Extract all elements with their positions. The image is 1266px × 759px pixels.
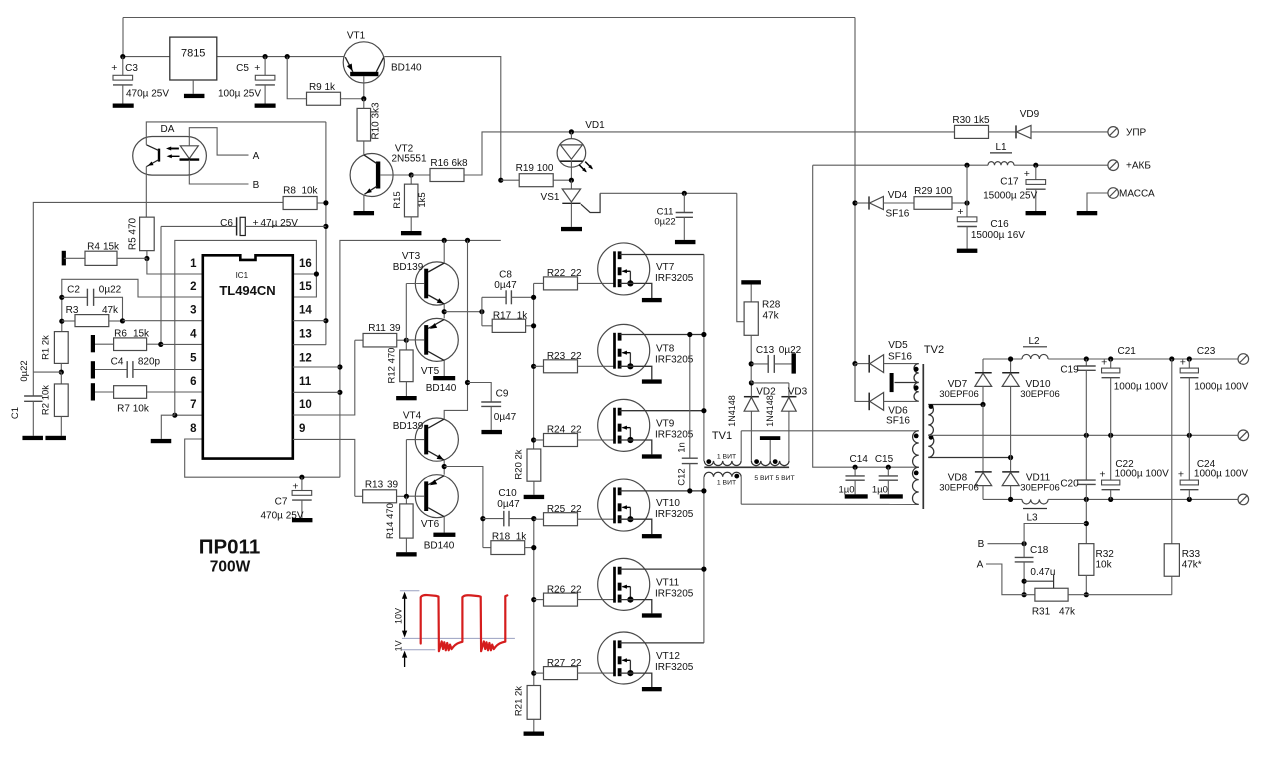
ground VT9 source	[642, 454, 662, 458]
transformer TV1	[704, 430, 789, 468]
wire 7815 input/output row	[120, 54, 344, 59]
svg-text:R18: R18	[492, 531, 511, 542]
svg-text:15k: 15k	[133, 328, 150, 339]
capacitor C11	[654, 193, 693, 240]
transistor VT3	[393, 251, 459, 340]
resistor R6	[95, 328, 163, 350]
svg-text:VT8: VT8	[656, 343, 675, 354]
svg-text:C17: C17	[1000, 177, 1019, 188]
svg-text:12: 12	[299, 353, 312, 365]
wire TV1 bottom rail to TV2	[741, 503, 919, 505]
svg-text:30EPF06: 30EPF06	[1020, 389, 1060, 400]
resistor R1	[33, 332, 68, 375]
svg-text:VT5: VT5	[421, 366, 440, 377]
capacitor C18	[1015, 544, 1056, 598]
svg-text:R5 470: R5 470	[127, 217, 138, 250]
resistor R29	[914, 186, 970, 209]
TV1 feedback winding 5 VIT 5 VIT	[751, 440, 794, 482]
svg-text:BD139: BD139	[393, 421, 424, 432]
svg-text:1000µ 100V: 1000µ 100V	[1115, 469, 1169, 480]
svg-text:+: +	[254, 62, 260, 74]
ground VT11 source	[642, 613, 662, 617]
capacitor C16	[957, 165, 1025, 248]
svg-text:30EPF06: 30EPF06	[939, 389, 979, 400]
svg-text:IRF3205: IRF3205	[655, 354, 694, 365]
svg-text:0µ47: 0µ47	[494, 412, 517, 423]
svg-text:30EPF06: 30EPF06	[939, 483, 979, 494]
resistor R27	[534, 658, 615, 680]
svg-text:+: +	[1178, 469, 1184, 481]
svg-text:BD140: BD140	[424, 540, 455, 551]
ground R20	[524, 495, 545, 499]
svg-text:1N4148: 1N4148	[727, 395, 737, 427]
ground VS1	[561, 227, 582, 231]
svg-text:+: +	[1101, 357, 1107, 369]
resistor R4	[64, 242, 147, 266]
diode VD7	[939, 359, 992, 407]
svg-text:R26: R26	[547, 584, 566, 595]
capacitor C3	[111, 57, 169, 104]
svg-text:IC1: IC1	[236, 271, 249, 280]
chassis bar C4	[91, 361, 95, 378]
wire R32 R33 bottom link	[1086, 594, 1172, 596]
svg-text:R30 1k5: R30 1k5	[952, 115, 990, 126]
svg-text:5: 5	[190, 353, 197, 365]
diode VD8	[939, 405, 992, 500]
node B output	[978, 539, 1027, 550]
svg-text:+: +	[1099, 469, 1105, 481]
ground R21	[524, 732, 545, 736]
svg-text:VD5: VD5	[888, 340, 908, 351]
capacitor C12	[677, 332, 698, 494]
svg-text:VT7: VT7	[656, 262, 675, 273]
optocoupler DA	[133, 124, 207, 175]
svg-text:+: +	[1024, 168, 1030, 180]
svg-text:47k: 47k	[1059, 607, 1076, 618]
svg-text:C6: C6	[220, 218, 233, 229]
capacitor C14	[838, 454, 868, 495]
svg-text:R8: R8	[283, 186, 296, 197]
MOSFET VT8	[598, 324, 704, 379]
MOSFET VT12	[598, 632, 704, 687]
diode VD11	[1002, 458, 1060, 500]
resistor R26	[534, 584, 615, 606]
svg-text:0.47u: 0.47u	[1030, 567, 1055, 578]
ground VT6	[433, 533, 455, 537]
ground pin7	[151, 439, 172, 443]
svg-text:1 ВИТ: 1 ВИТ	[717, 453, 736, 460]
svg-text:R15: R15	[392, 191, 403, 208]
chassis bar R28 top	[741, 280, 761, 284]
svg-text:C12: C12	[677, 468, 688, 485]
capacitor C22	[1099, 435, 1169, 499]
svg-text:1 ВИТ: 1 ВИТ	[717, 479, 736, 486]
resistor R21	[514, 686, 541, 732]
ground VT12 source	[642, 687, 662, 691]
svg-text:VT3: VT3	[402, 251, 421, 262]
svg-text:15: 15	[299, 281, 312, 293]
svg-text:VD4: VD4	[888, 190, 908, 201]
resistor R32	[1079, 499, 1115, 597]
svg-text:10k: 10k	[301, 186, 318, 197]
svg-text:R4: R4	[87, 242, 100, 253]
svg-text:BD140: BD140	[391, 63, 422, 74]
ground VT8 source	[642, 379, 662, 383]
oscillogram 10V dimension arrow	[394, 592, 408, 638]
svg-text:VT1: VT1	[347, 31, 366, 42]
wire pin3 link	[123, 320, 204, 322]
resistor R30	[952, 115, 990, 138]
wire LED cathode to node B	[189, 160, 248, 184]
svg-text:B: B	[253, 180, 260, 191]
resistor R2	[40, 372, 68, 436]
svg-text:22: 22	[570, 351, 582, 362]
svg-text:C19: C19	[1060, 365, 1079, 376]
trimmer R31	[1024, 575, 1086, 618]
diode VD10	[1002, 359, 1060, 458]
svg-text:C18: C18	[1030, 545, 1049, 556]
capacitor C7	[260, 477, 311, 521]
resistor R19	[498, 163, 574, 187]
chassis bar R7	[91, 383, 95, 400]
capacitor C6	[161, 217, 326, 236]
resistor R25	[534, 504, 615, 526]
wire VT1 collector to feed rail	[384, 57, 501, 181]
svg-text:IRF3205: IRF3205	[655, 273, 694, 284]
svg-text:R11: R11	[368, 323, 386, 334]
svg-text:47k: 47k	[763, 311, 780, 322]
svg-text:R7 10k: R7 10k	[117, 403, 150, 414]
wire R16 to LED line	[464, 132, 955, 175]
svg-text:22: 22	[570, 584, 582, 595]
resistor R28	[744, 285, 781, 383]
svg-text:SF16: SF16	[885, 208, 909, 219]
svg-text:L1: L1	[995, 142, 1007, 153]
oscillogram reference lines	[400, 591, 515, 650]
wire VS1 gate line	[600, 191, 744, 322]
svg-text:3: 3	[190, 305, 196, 317]
svg-text:R3: R3	[66, 305, 79, 316]
svg-text:IRF3205: IRF3205	[655, 662, 694, 673]
resistor R11	[355, 323, 409, 347]
terminal УПР	[1108, 127, 1147, 139]
chassis bar C13	[792, 353, 796, 373]
ground R12	[396, 396, 417, 400]
wire DA emitter to R5	[145, 167, 147, 218]
svg-text:R12 470: R12 470	[387, 348, 398, 384]
resistor R7	[95, 386, 203, 415]
svg-text:R19 100: R19 100	[516, 163, 554, 174]
capacitor C19	[1060, 359, 1095, 435]
wire +12V top rail	[123, 18, 855, 402]
svg-text:R31: R31	[1032, 607, 1051, 618]
svg-text:SF16: SF16	[886, 416, 910, 427]
chassis bar TV1 center tap	[760, 436, 780, 440]
svg-text:R22: R22	[547, 268, 566, 279]
wire +AKB drop to TV2 center	[813, 165, 919, 470]
wire VT6 collector to ground	[443, 517, 445, 533]
svg-text:1k: 1k	[517, 311, 529, 322]
svg-text:VS1: VS1	[541, 192, 560, 203]
svg-text:6: 6	[190, 376, 196, 388]
wire output bottom rail	[983, 497, 1238, 502]
svg-text:BD140: BD140	[426, 383, 457, 394]
svg-text:10k: 10k	[1096, 560, 1113, 571]
wire pin16 pin15 pin7 loop	[175, 240, 319, 415]
ground C3	[113, 104, 134, 108]
svg-text:R2 10k: R2 10k	[40, 385, 51, 415]
pin numbers right 16-9	[299, 258, 312, 435]
wire pin14 link	[293, 320, 326, 322]
ground R2	[45, 436, 65, 440]
svg-text:R23: R23	[547, 351, 566, 362]
terminal +AKB	[1108, 160, 1151, 172]
capacitor C15	[872, 454, 898, 495]
resistor R16	[411, 158, 468, 182]
MOSFET VT11	[598, 558, 704, 613]
svg-text:R25: R25	[547, 504, 566, 515]
ground VT5	[433, 376, 455, 380]
svg-text:0µ22: 0µ22	[654, 216, 675, 227]
oscillogram 1V dimension arrow	[394, 640, 408, 667]
svg-text:VT9: VT9	[656, 418, 675, 429]
svg-text:C5: C5	[236, 63, 249, 74]
svg-text:R21 2k: R21 2k	[514, 686, 525, 716]
svg-text:1N4148: 1N4148	[765, 395, 775, 427]
resistor R3	[62, 305, 125, 327]
svg-text:TL494CN: TL494CN	[219, 283, 275, 298]
svg-text:R33: R33	[1182, 549, 1201, 560]
svg-text:R16 6k8: R16 6k8	[430, 158, 468, 169]
ground C1	[22, 436, 43, 440]
svg-text:47k: 47k	[102, 305, 119, 316]
ground C15	[880, 494, 903, 498]
IC U1 TL494CN	[203, 255, 293, 458]
wire pin5 link	[133, 369, 203, 371]
svg-text:47µ 25V: 47µ 25V	[261, 218, 299, 229]
wire pin9 to R13	[293, 439, 355, 496]
diode VD2	[727, 380, 776, 461]
svg-text:VT11: VT11	[656, 577, 680, 588]
wire LED anode to node A	[189, 128, 248, 155]
svg-text:15000µ 25V: 15000µ 25V	[983, 191, 1037, 202]
svg-text:C4: C4	[111, 356, 124, 367]
resistor R5	[127, 217, 154, 261]
svg-text:ПР011: ПР011	[199, 536, 260, 559]
svg-text:DA: DA	[161, 124, 175, 135]
svg-text:22: 22	[570, 425, 582, 436]
terminal output mid	[1238, 430, 1249, 441]
svg-text:R17: R17	[493, 311, 512, 322]
svg-text:1: 1	[190, 258, 197, 270]
resistor R33	[1164, 359, 1202, 595]
svg-text:+: +	[957, 206, 963, 218]
ground R15	[401, 231, 422, 235]
svg-text:+: +	[111, 62, 117, 74]
svg-text:1000µ 100V: 1000µ 100V	[1114, 381, 1168, 392]
oscillogram waveform trace	[421, 595, 508, 651]
capacitor C23	[1180, 346, 1249, 435]
svg-text:R24: R24	[547, 425, 566, 436]
svg-text:39: 39	[387, 479, 399, 490]
resistor R12	[387, 340, 414, 396]
svg-text:15k: 15k	[103, 242, 120, 253]
svg-text:16: 16	[299, 258, 312, 270]
svg-text:VD3: VD3	[788, 387, 808, 398]
ground 7815	[184, 94, 205, 98]
svg-text:22: 22	[570, 268, 582, 279]
svg-text:C14: C14	[850, 454, 869, 465]
node A output	[977, 560, 1024, 595]
svg-text:10: 10	[299, 399, 312, 411]
svg-text:TV2: TV2	[924, 344, 944, 356]
resistor R20	[514, 449, 541, 495]
chassis bar R4	[62, 251, 66, 266]
wire output top rail	[983, 356, 1238, 361]
inductor L3	[1022, 499, 1048, 523]
svg-text:VD1: VD1	[585, 120, 605, 131]
svg-text:1000µ 100V: 1000µ 100V	[1194, 469, 1248, 480]
svg-text:4: 4	[190, 328, 197, 340]
chassis bar R6	[91, 335, 95, 352]
svg-text:C23: C23	[1197, 346, 1216, 357]
capacitor C8	[482, 270, 534, 326]
svg-text:39: 39	[389, 323, 401, 334]
resistor R10	[357, 99, 381, 154]
svg-text:+: +	[1180, 357, 1186, 369]
resistor R24	[534, 425, 615, 447]
resistor R18	[483, 531, 534, 554]
svg-text:14: 14	[299, 305, 312, 317]
svg-text:C3: C3	[125, 63, 138, 74]
wire pin13 link	[293, 344, 326, 346]
svg-text:R13: R13	[365, 479, 384, 490]
svg-text:VT6: VT6	[421, 519, 440, 530]
capacitor C10	[483, 488, 534, 526]
svg-text:R14 470: R14 470	[385, 503, 396, 539]
svg-text:7: 7	[190, 399, 196, 411]
wire pin12 link	[293, 366, 340, 368]
svg-text:A: A	[977, 560, 984, 571]
wire VT5 collector to ground	[443, 360, 445, 376]
capacitor C5	[218, 57, 275, 104]
svg-text:15000µ 16V: 15000µ 16V	[971, 230, 1025, 241]
resistor R22	[534, 268, 615, 290]
svg-text:SF16: SF16	[888, 352, 912, 363]
wire pin4 link	[161, 343, 203, 345]
wire drain bus lower	[701, 477, 706, 643]
capacitor C24	[1178, 435, 1248, 499]
wire pin7 link and ground	[161, 413, 203, 439]
wire pin1 link	[147, 259, 203, 275]
TV2 secondary winding lower	[928, 435, 1013, 460]
ground C7	[292, 518, 313, 522]
MOSFET VT9	[598, 399, 704, 454]
svg-text:R6: R6	[114, 328, 127, 339]
svg-text:R1 2k: R1 2k	[40, 335, 51, 360]
wire feedback line C1 to R8	[33, 202, 283, 372]
ground C14	[845, 494, 868, 498]
wire VCC bus x326	[323, 122, 328, 345]
svg-text:820p: 820p	[138, 356, 161, 367]
capacitor C4	[95, 356, 161, 378]
svg-text:2N5551: 2N5551	[391, 154, 426, 165]
wire C6 left bus to pin4	[160, 226, 162, 344]
svg-text:VD9: VD9	[1020, 109, 1040, 120]
svg-text:C16: C16	[990, 219, 1009, 230]
wire gate bus lower	[531, 516, 536, 686]
svg-text:C10: C10	[498, 488, 517, 499]
terminal output bottom	[1238, 494, 1249, 505]
diode VD9	[989, 109, 1108, 138]
svg-text:VT10: VT10	[656, 498, 680, 509]
svg-text:8: 8	[190, 423, 197, 435]
capacitor C17	[983, 165, 1045, 211]
svg-text:100µ 25V: 100µ 25V	[218, 89, 261, 100]
svg-text:+: +	[253, 217, 259, 229]
inductor L2	[1022, 336, 1048, 359]
wire +AKB line	[813, 163, 1108, 168]
svg-text:МАССА: МАССА	[1119, 188, 1155, 199]
svg-text:R10 3k3: R10 3k3	[371, 102, 382, 140]
TV1 primary winding upper 1 VIT	[704, 431, 741, 466]
resistor R17	[482, 311, 534, 333]
svg-text:0µ22: 0µ22	[19, 360, 30, 381]
svg-text:УПР: УПР	[1126, 127, 1147, 138]
wire VT4 VT6 emitter junction	[442, 460, 486, 547]
wire VT3 collector	[443, 240, 445, 263]
svg-text:L2: L2	[1028, 336, 1040, 347]
svg-text:30EPF06: 30EPF06	[1020, 483, 1060, 494]
capacitor C2	[62, 284, 123, 321]
ground C16	[957, 249, 978, 253]
svg-text:0µ47: 0µ47	[494, 280, 517, 291]
svg-text:1µ0: 1µ0	[838, 484, 854, 495]
svg-text:IRF3205: IRF3205	[655, 588, 694, 599]
wire VT3 VT5 emitter junction	[442, 304, 485, 318]
svg-text:1µ0: 1µ0	[872, 484, 888, 495]
svg-text:R32: R32	[1096, 549, 1115, 560]
diode VD6	[855, 364, 916, 427]
svg-text:1k5: 1k5	[417, 192, 428, 207]
MOSFET VT7	[598, 243, 704, 298]
wire DA collector to bus	[146, 122, 326, 145]
svg-text:700W: 700W	[210, 559, 251, 576]
capacitor C21	[1101, 346, 1168, 435]
resistor R15	[392, 175, 428, 231]
chassis bar TV2 aux tap	[890, 373, 894, 392]
inductor L1	[988, 142, 1014, 165]
svg-text:IRF3205: IRF3205	[655, 509, 694, 520]
svg-text:22: 22	[570, 504, 582, 515]
diode VD3	[751, 383, 807, 461]
transistor VT5	[406, 318, 458, 394]
svg-text:C1: C1	[10, 407, 21, 419]
ground C11	[675, 240, 696, 244]
ground VT7 source	[642, 298, 662, 302]
svg-text:10V: 10V	[394, 608, 404, 624]
svg-text:22: 22	[570, 658, 582, 669]
svg-text:+АКБ: +АКБ	[1126, 161, 1151, 172]
svg-text:1n: 1n	[677, 442, 688, 453]
diode VD5	[852, 340, 916, 373]
resistor R14	[385, 496, 413, 552]
TV2 primary winding lower	[913, 467, 919, 504]
wire VT4 collector to C9 and rail	[444, 240, 470, 419]
ground C17	[1026, 211, 1047, 215]
svg-text:C9: C9	[496, 388, 509, 399]
ground МАССА	[1077, 211, 1098, 215]
